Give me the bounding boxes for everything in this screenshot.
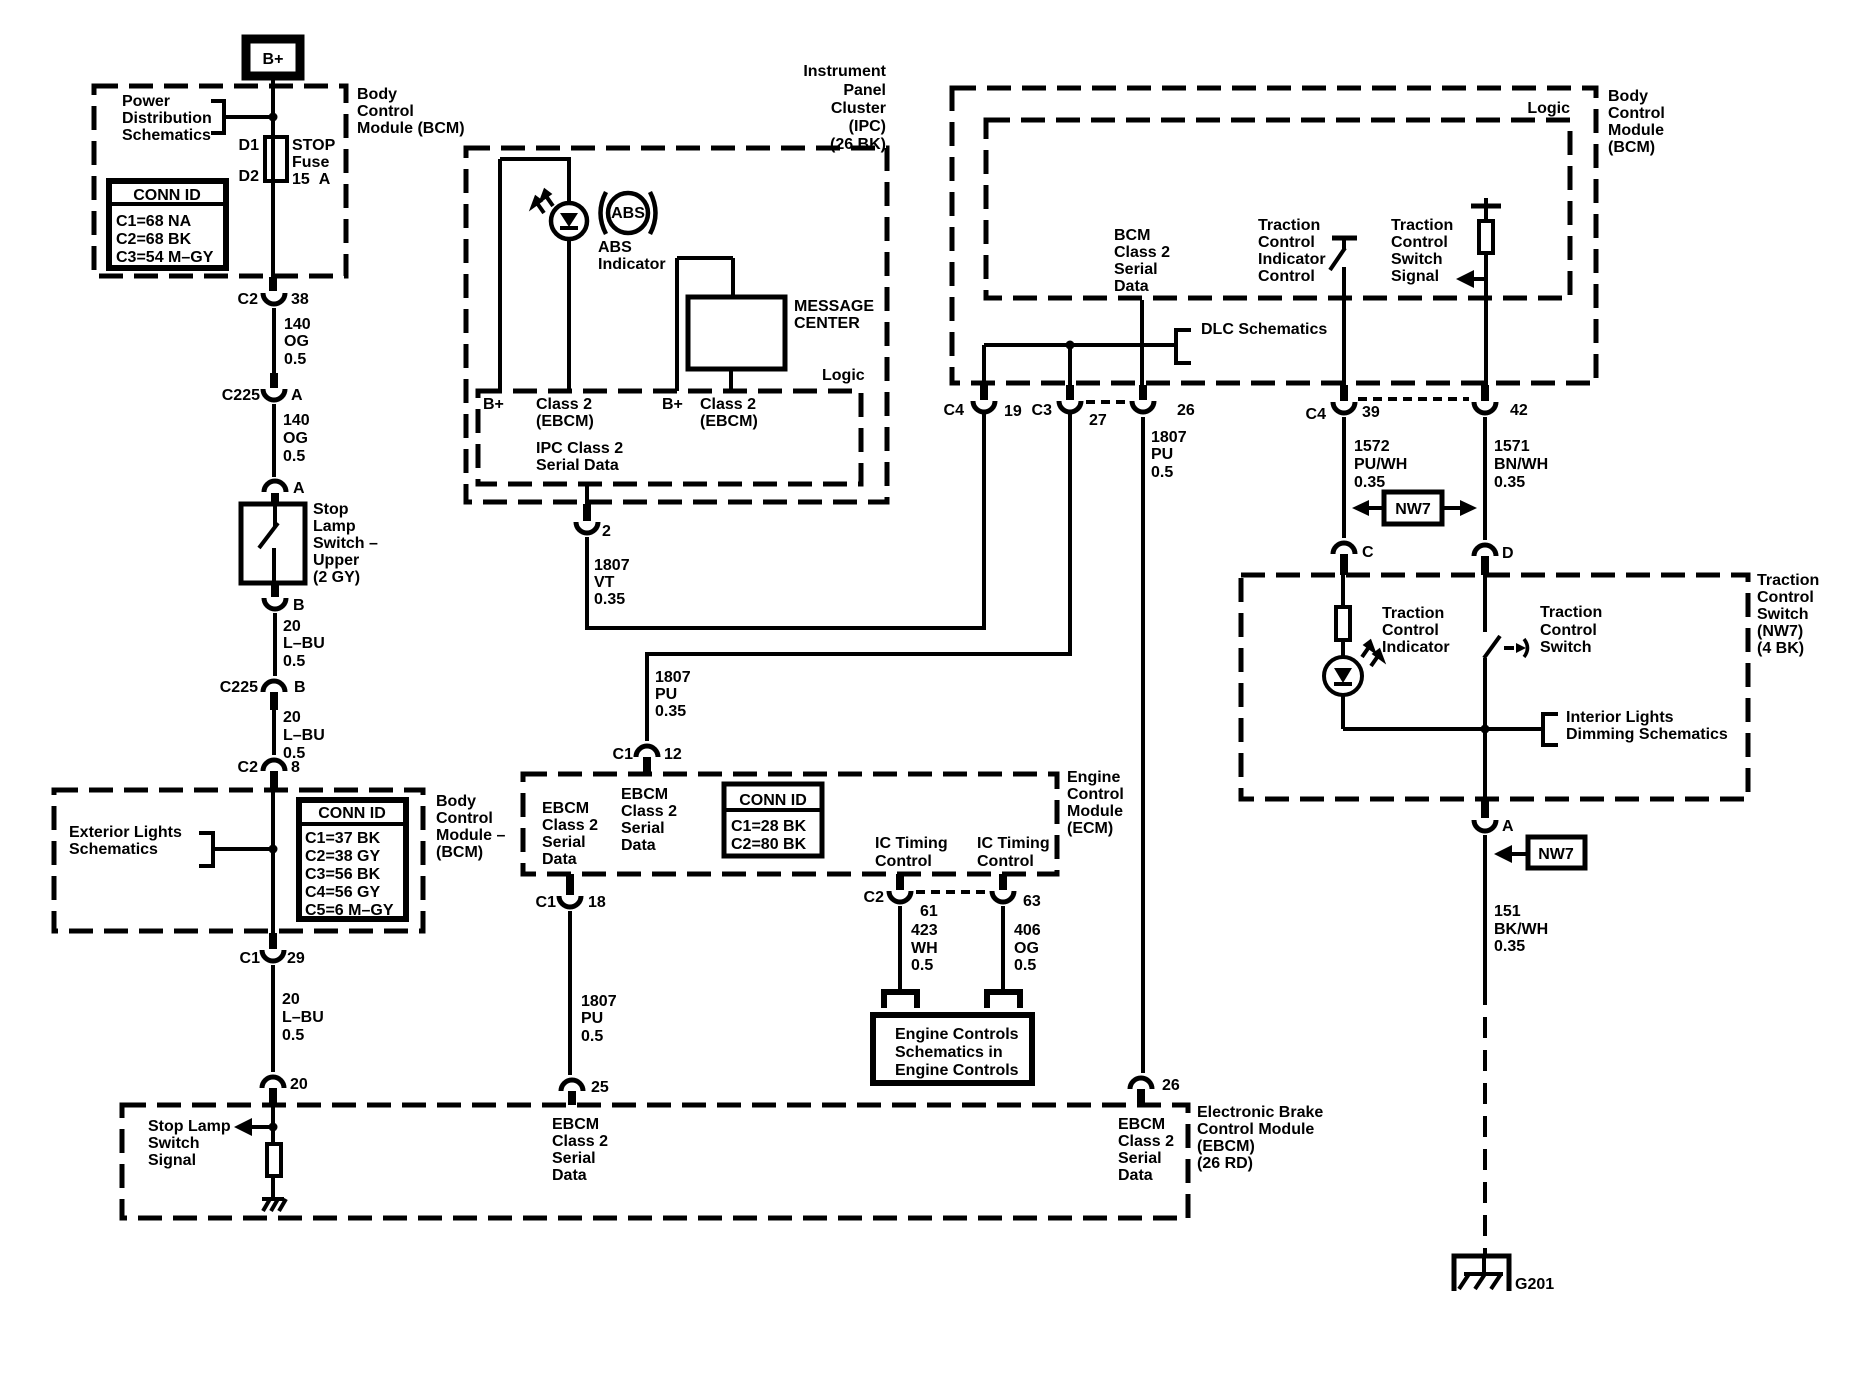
svg-text:Serial: Serial bbox=[1114, 261, 1158, 278]
junction dot power distribution bbox=[269, 113, 278, 122]
unlabeled harness run (dashed) bbox=[1483, 984, 1487, 1256]
svg-text:EBCM: EBCM bbox=[552, 1116, 599, 1133]
traction control switch contact bbox=[1484, 636, 1528, 658]
svg-text:Engine: Engine bbox=[1067, 769, 1120, 786]
IPC logic inner box bbox=[478, 391, 861, 484]
wire 1807 PU 0.5 (ECM to EBCM) bbox=[570, 911, 617, 1075]
svg-text:1807: 1807 bbox=[1151, 429, 1187, 446]
connector pin 42 bbox=[1474, 385, 1528, 419]
label Logic (IPC) bbox=[822, 367, 865, 384]
svg-text:C225: C225 bbox=[222, 387, 260, 404]
svg-text:Class 2: Class 2 bbox=[542, 817, 598, 834]
svg-text:0.5: 0.5 bbox=[284, 351, 306, 368]
svg-text:0.5: 0.5 bbox=[283, 653, 305, 670]
svg-text:(2 GY): (2 GY) bbox=[313, 569, 360, 586]
svg-text:OG: OG bbox=[283, 430, 308, 447]
svg-text:C3=56 BK: C3=56 BK bbox=[305, 866, 381, 883]
svg-text:Exterior Lights: Exterior Lights bbox=[69, 824, 182, 841]
svg-text:D: D bbox=[1502, 545, 1514, 562]
svg-text:0.5: 0.5 bbox=[581, 1028, 603, 1045]
wire 1807 VT 0.35 bbox=[587, 413, 984, 628]
connector tie 27-26 bbox=[1086, 400, 1130, 404]
svg-text:C3: C3 bbox=[1032, 402, 1053, 419]
svg-text:Power: Power bbox=[122, 93, 170, 110]
wire switch to box bottom bbox=[1483, 658, 1487, 799]
svg-text:C3=54 M–GY: C3=54 M–GY bbox=[116, 249, 214, 266]
connector C2 pin 61 bbox=[864, 874, 938, 920]
svg-text:PU/WH: PU/WH bbox=[1354, 456, 1407, 473]
connector C2 pin 8 bbox=[238, 759, 300, 790]
svg-text:BCM: BCM bbox=[1114, 227, 1150, 244]
label EBCM Class 2 Serial Data (pin 26) bbox=[1118, 1116, 1174, 1184]
traction switch bus wire bbox=[1343, 727, 1543, 731]
svg-text:Stop Lamp: Stop Lamp bbox=[148, 1118, 231, 1135]
wire BCM internal vertical bbox=[271, 86, 275, 277]
svg-text:27: 27 bbox=[1089, 412, 1107, 429]
connector C3 pin 27 bbox=[1032, 385, 1107, 429]
MESSAGE CENTER display bbox=[688, 297, 874, 369]
wire through BCM bbox=[271, 790, 275, 933]
svg-text:STOP: STOP bbox=[292, 137, 336, 154]
junction dot traction bus bbox=[1481, 725, 1490, 734]
svg-text:Body: Body bbox=[1608, 88, 1648, 105]
BCM logic inner box bbox=[986, 120, 1570, 298]
resistor switch signal pull-up bbox=[1479, 221, 1493, 253]
svg-text:EBCM: EBCM bbox=[621, 786, 668, 803]
svg-text:D2: D2 bbox=[239, 168, 260, 185]
svg-text:Class 2: Class 2 bbox=[700, 396, 756, 413]
svg-text:C1: C1 bbox=[240, 950, 261, 967]
CONN ID table (ECM) bbox=[724, 784, 822, 856]
svg-text:Signal: Signal bbox=[1391, 268, 1439, 285]
wire 406 OG 0.5 bbox=[1003, 906, 1041, 990]
EBCM internal ground bbox=[262, 1176, 286, 1211]
svg-text:0.5: 0.5 bbox=[911, 957, 933, 974]
label Traction Control Indicator Control bbox=[1258, 217, 1326, 285]
svg-text:Signal: Signal bbox=[148, 1152, 196, 1169]
label EBCM Class 2 Serial Data (pin 12) bbox=[621, 786, 677, 854]
svg-text:B: B bbox=[294, 679, 306, 696]
svg-text:Dimming Schematics: Dimming Schematics bbox=[1566, 726, 1728, 743]
svg-text:15 A: 15 A bbox=[292, 171, 331, 188]
svg-text:(EBCM): (EBCM) bbox=[700, 413, 758, 430]
Traction Control Switch module box bbox=[1241, 575, 1748, 799]
junction dot exterior lights bbox=[269, 845, 278, 854]
svg-text:Serial: Serial bbox=[621, 820, 665, 837]
svg-text:Control: Control bbox=[436, 810, 493, 827]
svg-text:CENTER: CENTER bbox=[794, 315, 860, 332]
svg-text:1807: 1807 bbox=[655, 669, 691, 686]
wire 20 L-BU 0.5 (lower) bbox=[274, 709, 325, 762]
svg-text:C2=38 GY: C2=38 GY bbox=[305, 848, 380, 865]
connector C4 pin 39 bbox=[1306, 385, 1380, 423]
svg-text:Body: Body bbox=[436, 793, 476, 810]
label Logic (BCM) bbox=[1527, 100, 1570, 117]
svg-text:PU: PU bbox=[581, 1010, 603, 1027]
connector pin 63 bbox=[992, 874, 1041, 910]
svg-text:B+: B+ bbox=[662, 396, 683, 413]
IPC module box bbox=[466, 148, 887, 502]
svg-text:140: 140 bbox=[283, 412, 310, 429]
connector pin 25 bbox=[561, 1079, 609, 1105]
svg-text:C1=28 BK: C1=28 BK bbox=[731, 818, 807, 835]
wire LED to bus bbox=[1341, 695, 1345, 729]
svg-text:406: 406 bbox=[1014, 922, 1041, 939]
svg-text:Data: Data bbox=[621, 837, 656, 854]
svg-text:A: A bbox=[1502, 818, 1514, 835]
driver symbol traction indicator control bbox=[1330, 238, 1357, 270]
connector pin 20 bbox=[262, 1076, 308, 1105]
svg-text:38: 38 bbox=[291, 291, 309, 308]
wire 20 L-BU 0.5 bbox=[275, 613, 325, 676]
svg-text:C2=80 BK: C2=80 BK bbox=[731, 836, 807, 853]
svg-text:Instrument: Instrument bbox=[803, 63, 886, 80]
svg-text:26: 26 bbox=[1177, 402, 1195, 419]
label Traction Control Switch bbox=[1540, 604, 1602, 656]
svg-text:Cluster: Cluster bbox=[831, 100, 886, 117]
CONN ID table (BCM top) bbox=[109, 181, 226, 268]
battery feed B+ terminal bbox=[246, 39, 300, 76]
svg-text:Switch: Switch bbox=[1391, 251, 1443, 268]
label Body Control Module - (BCM) bbox=[436, 793, 505, 861]
NW7 harness marker upper bbox=[1352, 492, 1477, 524]
svg-text:OG: OG bbox=[284, 333, 309, 350]
wire B+ to BCM bbox=[271, 76, 275, 86]
svg-text:BN/WH: BN/WH bbox=[1494, 456, 1548, 473]
svg-text:ABS: ABS bbox=[611, 205, 645, 222]
connector C1 pin 29 bbox=[240, 933, 305, 967]
stop lamp switch upper (2 GY) bbox=[241, 501, 378, 586]
svg-text:Module –: Module – bbox=[436, 827, 505, 844]
svg-text:Serial: Serial bbox=[1118, 1150, 1162, 1167]
internal supply tap bbox=[1471, 198, 1501, 221]
svg-text:63: 63 bbox=[1023, 893, 1041, 910]
connector tie 39-42 bbox=[1358, 397, 1469, 401]
label Traction Control Switch Signal bbox=[1391, 217, 1453, 285]
svg-text:Switch: Switch bbox=[1540, 639, 1592, 656]
wire 1807 PU 0.35 (to ECM C1 12) bbox=[647, 413, 1070, 741]
wire indicator control to C4 39 bbox=[1342, 267, 1346, 385]
svg-text:Class 2: Class 2 bbox=[1118, 1133, 1174, 1150]
svg-text:L–BU: L–BU bbox=[283, 635, 325, 652]
svg-text:Control: Control bbox=[875, 853, 932, 870]
wire 1571 BN/WH 0.35 bbox=[1485, 417, 1548, 540]
CONN ID table (BCM exterior) bbox=[299, 800, 406, 919]
svg-text:Control: Control bbox=[1757, 589, 1814, 606]
off-page bracket (63) bbox=[987, 992, 1020, 1008]
svg-text:Indicator: Indicator bbox=[1382, 639, 1450, 656]
BCM module box (top left) bbox=[94, 86, 346, 276]
svg-text:IPC Class 2: IPC Class 2 bbox=[536, 440, 623, 457]
svg-text:(IPC): (IPC) bbox=[849, 118, 886, 135]
connector A at stop lamp switch bbox=[264, 480, 305, 504]
label EBCM Class 2 Serial Data (pin 25) bbox=[552, 1116, 608, 1184]
node Power Distribution Schematics bbox=[122, 93, 271, 144]
ECM module box bbox=[523, 774, 1057, 874]
connector B below switch bbox=[264, 583, 305, 614]
connector D (NW7) bbox=[1474, 545, 1514, 575]
svg-text:A: A bbox=[291, 387, 303, 404]
svg-text:Body: Body bbox=[357, 86, 397, 103]
svg-text:0.5: 0.5 bbox=[282, 1027, 304, 1044]
wire ABS lamp feed bbox=[567, 159, 571, 391]
svg-text:Logic: Logic bbox=[822, 367, 865, 384]
label Traction Control Indicator bbox=[1382, 605, 1450, 656]
svg-text:(4 BK): (4 BK) bbox=[1757, 640, 1804, 657]
svg-text:Class 2: Class 2 bbox=[621, 803, 677, 820]
svg-text:PU: PU bbox=[1151, 446, 1173, 463]
svg-text:IC Timing: IC Timing bbox=[977, 835, 1050, 852]
ground G201 bbox=[1454, 1256, 1554, 1293]
label EBCM Class 2 Serial Data (pin 18) bbox=[542, 800, 598, 868]
DLC schematics bus bbox=[984, 321, 1327, 385]
connector C2 pin 38 bbox=[238, 277, 309, 308]
svg-text:Schematics: Schematics bbox=[69, 841, 158, 858]
svg-text:1571: 1571 bbox=[1494, 438, 1530, 455]
svg-text:Distribution: Distribution bbox=[122, 110, 212, 127]
svg-text:CONN ID: CONN ID bbox=[739, 792, 807, 809]
node Stop Lamp Switch Signal bbox=[148, 1118, 271, 1169]
svg-text:OG: OG bbox=[1014, 940, 1039, 957]
svg-text:L–BU: L–BU bbox=[282, 1009, 324, 1026]
svg-text:ABS: ABS bbox=[598, 239, 632, 256]
junction dot stop lamp signal bbox=[269, 1123, 278, 1132]
connector C1 pin 12 bbox=[613, 746, 682, 774]
svg-text:C2: C2 bbox=[238, 291, 259, 308]
svg-text:CONN ID: CONN ID bbox=[318, 805, 386, 822]
svg-text:C1: C1 bbox=[536, 894, 557, 911]
connector C4 pin 19 bbox=[944, 385, 1022, 420]
svg-text:C5=6 M–GY: C5=6 M–GY bbox=[305, 902, 394, 919]
wire 20 L-BU 0.5 (to EBCM) bbox=[273, 965, 324, 1072]
svg-text:Traction: Traction bbox=[1540, 604, 1602, 621]
svg-text:Switch: Switch bbox=[148, 1135, 200, 1152]
svg-text:Data: Data bbox=[1114, 278, 1149, 295]
svg-text:0.5: 0.5 bbox=[1151, 464, 1173, 481]
svg-text:12: 12 bbox=[664, 746, 682, 763]
svg-text:(26 RD): (26 RD) bbox=[1197, 1155, 1253, 1172]
svg-text:(NW7): (NW7) bbox=[1757, 623, 1803, 640]
svg-text:Data: Data bbox=[552, 1167, 587, 1184]
wire IPC B+ rail (ABS lamp) bbox=[500, 159, 571, 391]
wire BCM serial data drop bbox=[1140, 300, 1144, 385]
svg-text:Serial Data: Serial Data bbox=[536, 457, 619, 474]
BCM module box (top right) bbox=[952, 88, 1596, 383]
svg-text:NW7: NW7 bbox=[1395, 501, 1431, 518]
resistor EBCM internal bbox=[267, 1144, 281, 1176]
svg-text:Control: Control bbox=[1608, 105, 1665, 122]
svg-text:423: 423 bbox=[911, 922, 938, 939]
svg-text:Module: Module bbox=[1067, 803, 1123, 820]
wire 151 BK/WH 0.35 bbox=[1485, 835, 1548, 984]
svg-text:C4=56 GY: C4=56 GY bbox=[305, 884, 380, 901]
connector pin 26 (EBCM) bbox=[1130, 1077, 1180, 1105]
svg-text:BK/WH: BK/WH bbox=[1494, 921, 1548, 938]
svg-text:B: B bbox=[293, 597, 305, 614]
svg-text:PU: PU bbox=[655, 686, 677, 703]
fuse STOP 15 A (D1/D2) bbox=[239, 137, 336, 188]
connector tie 61-63 bbox=[916, 890, 986, 894]
svg-text:Control: Control bbox=[1258, 234, 1315, 251]
svg-text:Control: Control bbox=[977, 853, 1034, 870]
connector C1 pin 18 bbox=[536, 874, 606, 911]
node Exterior Lights Schematics bbox=[69, 824, 271, 866]
svg-text:Control: Control bbox=[357, 103, 414, 120]
svg-text:WH: WH bbox=[911, 940, 938, 957]
svg-text:Electronic Brake: Electronic Brake bbox=[1197, 1104, 1323, 1121]
svg-text:8: 8 bbox=[291, 759, 300, 776]
wire message center class2 bbox=[729, 369, 733, 391]
svg-text:Panel: Panel bbox=[843, 82, 886, 99]
svg-text:MESSAGE: MESSAGE bbox=[794, 298, 874, 315]
svg-text:Control: Control bbox=[1540, 622, 1597, 639]
svg-text:Control: Control bbox=[1258, 268, 1315, 285]
svg-text:Traction: Traction bbox=[1757, 572, 1819, 589]
label ABS Indicator bbox=[598, 239, 666, 273]
svg-text:VT: VT bbox=[594, 574, 615, 591]
svg-text:Control: Control bbox=[1391, 234, 1448, 251]
svg-text:Upper: Upper bbox=[313, 552, 359, 569]
wire 1807 PU 0.5 (BCM to EBCM) bbox=[1143, 417, 1187, 1073]
svg-text:Schematics: Schematics bbox=[122, 127, 211, 144]
svg-text:Lamp: Lamp bbox=[313, 518, 356, 535]
svg-text:C2=68 BK: C2=68 BK bbox=[116, 231, 192, 248]
svg-text:C4: C4 bbox=[1306, 406, 1327, 423]
label Electronic Brake Control Module (EBCM) (26 RD) bbox=[1197, 1104, 1323, 1172]
svg-text:19: 19 bbox=[1004, 403, 1022, 420]
svg-text:C1=68 NA: C1=68 NA bbox=[116, 213, 192, 230]
wire resistor to LED bbox=[1341, 640, 1345, 658]
svg-text:1572: 1572 bbox=[1354, 438, 1390, 455]
svg-text:Engine Controls: Engine Controls bbox=[895, 1062, 1019, 1079]
svg-text:Indicator: Indicator bbox=[598, 256, 666, 273]
svg-text:2: 2 bbox=[602, 523, 611, 540]
svg-text:Engine Controls: Engine Controls bbox=[895, 1026, 1019, 1043]
connector C225 pin A bbox=[222, 373, 303, 404]
traction control indicator LED bbox=[1324, 642, 1382, 695]
svg-text:C1: C1 bbox=[613, 746, 634, 763]
svg-text:0.5: 0.5 bbox=[1014, 957, 1036, 974]
svg-text:(BCM): (BCM) bbox=[1608, 139, 1655, 156]
svg-text:C1=37 BK: C1=37 BK bbox=[305, 830, 381, 847]
svg-text:18: 18 bbox=[588, 894, 606, 911]
EBCM module box (bottom) bbox=[122, 1105, 1188, 1218]
svg-text:1807: 1807 bbox=[581, 993, 617, 1010]
svg-text:Switch: Switch bbox=[1757, 606, 1809, 623]
svg-text:20: 20 bbox=[290, 1076, 308, 1093]
svg-text:26: 26 bbox=[1162, 1077, 1180, 1094]
svg-text:0.35: 0.35 bbox=[1494, 474, 1525, 491]
off-page bracket (61) bbox=[884, 992, 917, 1008]
svg-text:(EBCM): (EBCM) bbox=[536, 413, 594, 430]
svg-text:25: 25 bbox=[591, 1079, 609, 1096]
svg-text:140: 140 bbox=[284, 316, 311, 333]
svg-text:L–BU: L–BU bbox=[283, 727, 325, 744]
label Traction Control Switch (NW7) (4 BK) bbox=[1757, 572, 1819, 657]
svg-text:(ECM): (ECM) bbox=[1067, 820, 1113, 837]
NW7 harness marker lower bbox=[1494, 837, 1585, 868]
svg-text:C2: C2 bbox=[864, 889, 885, 906]
svg-text:Class 2: Class 2 bbox=[1114, 244, 1170, 261]
connector C225 pin B bbox=[220, 679, 306, 710]
svg-text:29: 29 bbox=[287, 950, 305, 967]
svg-text:Data: Data bbox=[1118, 1167, 1153, 1184]
svg-text:61: 61 bbox=[920, 903, 938, 920]
junction dot DLC at C3 27 bbox=[1066, 341, 1075, 350]
svg-text:0.35: 0.35 bbox=[655, 703, 686, 720]
svg-text:42: 42 bbox=[1510, 402, 1528, 419]
svg-text:0.35: 0.35 bbox=[594, 591, 625, 608]
BCM module box (exterior lights) bbox=[54, 790, 423, 931]
svg-text:Control: Control bbox=[1067, 786, 1124, 803]
svg-text:20: 20 bbox=[282, 991, 300, 1008]
svg-text:151: 151 bbox=[1494, 903, 1521, 920]
wire D to switch bbox=[1483, 575, 1487, 632]
svg-text:B+: B+ bbox=[263, 51, 284, 68]
svg-text:Class 2: Class 2 bbox=[536, 396, 592, 413]
wire switch signal to 42 bbox=[1484, 253, 1488, 385]
svg-text:Logic: Logic bbox=[1527, 100, 1570, 117]
wire 423 WH 0.5 bbox=[900, 906, 938, 990]
svg-text:Fuse: Fuse bbox=[292, 154, 329, 171]
wire message center B+ rail bbox=[677, 258, 733, 391]
connector C (NW7) bbox=[1333, 543, 1374, 575]
node Interior Lights Dimming Schematics bbox=[1543, 709, 1728, 745]
wire to pull-up resistor bbox=[271, 1105, 275, 1144]
Engine Controls reference box bbox=[873, 1015, 1032, 1083]
svg-text:0.35: 0.35 bbox=[1354, 474, 1385, 491]
label BCM Class 2 Serial Data bbox=[1114, 227, 1170, 295]
svg-text:0.35: 0.35 bbox=[1494, 938, 1525, 955]
svg-text:Traction: Traction bbox=[1382, 605, 1444, 622]
svg-text:Interior Lights: Interior Lights bbox=[1566, 709, 1674, 726]
svg-text:B+: B+ bbox=[483, 396, 504, 413]
wire 140 OG 0.5 bbox=[274, 308, 311, 373]
svg-text:DLC Schematics: DLC Schematics bbox=[1201, 321, 1327, 338]
svg-text:Indicator: Indicator bbox=[1258, 251, 1326, 268]
svg-text:(BCM): (BCM) bbox=[436, 844, 483, 861]
svg-text:Traction: Traction bbox=[1391, 217, 1453, 234]
connector IPC pin 2 bbox=[576, 484, 611, 540]
label Body Control Module (BCM) right bbox=[1608, 88, 1665, 156]
svg-text:C2: C2 bbox=[238, 759, 259, 776]
svg-text:20: 20 bbox=[283, 618, 301, 635]
svg-text:20: 20 bbox=[283, 709, 301, 726]
arrow switch signal input bbox=[1456, 270, 1486, 288]
svg-text:IC Timing: IC Timing bbox=[875, 835, 948, 852]
svg-text:Serial: Serial bbox=[542, 834, 586, 851]
svg-text:Control Module: Control Module bbox=[1197, 1121, 1314, 1138]
connector A (NW7 below box) bbox=[1474, 799, 1514, 835]
svg-text:Serial: Serial bbox=[552, 1150, 596, 1167]
svg-text:A: A bbox=[293, 480, 305, 497]
ABS warning icon bbox=[601, 192, 656, 234]
wire 1572 PU/WH 0.35 bbox=[1344, 417, 1407, 538]
svg-text:0.5: 0.5 bbox=[283, 448, 305, 465]
svg-text:(26 BK): (26 BK) bbox=[830, 136, 886, 153]
svg-text:D1: D1 bbox=[239, 137, 260, 154]
svg-text:G201: G201 bbox=[1515, 1276, 1554, 1293]
resistor traction indicator bbox=[1336, 607, 1350, 640]
IPC pin function labels bbox=[483, 396, 758, 474]
svg-text:C: C bbox=[1362, 544, 1374, 561]
svg-text:Traction: Traction bbox=[1258, 217, 1320, 234]
svg-text:Data: Data bbox=[542, 851, 577, 868]
svg-text:Schematics in: Schematics in bbox=[895, 1044, 1003, 1061]
wire 140 OG 0.5 (lower) bbox=[274, 404, 310, 477]
svg-text:C4: C4 bbox=[944, 402, 965, 419]
svg-text:EBCM: EBCM bbox=[542, 800, 589, 817]
